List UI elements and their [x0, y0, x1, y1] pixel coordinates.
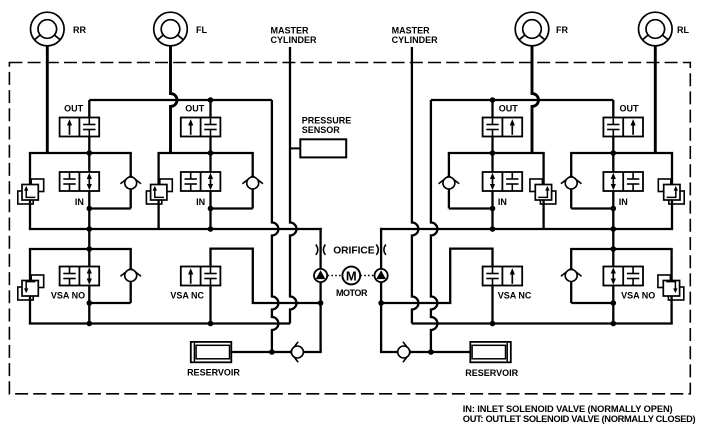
wire return line left (jumps at rails)	[272, 100, 279, 352]
wire FR main line OUT-to-IN	[491, 137, 493, 173]
wheel cylinder FR	[515, 12, 549, 46]
wire RL block top rail	[570, 152, 673, 154]
svg-text:SENSOR: SENSOR	[302, 125, 341, 135]
pump left	[314, 269, 327, 282]
wire VSA NO left main (valve to bottom rail)	[88, 286, 90, 324]
relief valve (FR block)	[530, 179, 543, 192]
wire RR relief branch vertical	[29, 153, 31, 229]
wire FL main line IN-to-mid rail	[209, 191, 211, 229]
wire FR block top rail	[448, 152, 545, 154]
relief valve (RR block)	[31, 179, 44, 192]
svg-text:FL: FL	[196, 25, 207, 35]
wire FL OUT riser	[209, 100, 211, 118]
check valve (FR block)	[439, 176, 460, 189]
wire FL block top rail	[157, 152, 253, 154]
wire RR wheel stem	[46, 46, 49, 153]
wire RR main line OUT-to-IN	[88, 137, 90, 173]
wire RL main line IN-to-mid rail	[612, 191, 614, 229]
wire VSA NC right (valve to bottom rail)	[491, 286, 493, 324]
reservoir right	[470, 342, 511, 362]
wire FR check join horizontal	[449, 207, 493, 209]
wire RR block top rail	[29, 152, 132, 154]
svg-text:OUT: OUT	[499, 104, 519, 114]
relief valve (FL block)	[160, 179, 173, 192]
svg-text:OUT: OUT	[64, 104, 84, 114]
wire pressure sensor stub	[290, 147, 300, 149]
wire RR check branch vertical	[130, 153, 132, 209]
wire FL relief branch vertical	[157, 153, 159, 229]
solenoid valve OUT (FR)	[483, 118, 523, 137]
wire FR check branch vertical	[448, 153, 450, 209]
wire RR OUT riser	[88, 100, 90, 118]
wire VSA NC left (valve to bottom rail)	[209, 286, 211, 324]
svg-text:IN: IN	[619, 197, 628, 207]
wire master cylinder left (jumps, ends at VSA bottom rail)	[290, 47, 297, 324]
svg-text:CYLINDER: CYLINDER	[392, 35, 439, 45]
solenoid valve IN (RR)	[60, 172, 100, 191]
solenoid valve IN (FL)	[181, 172, 221, 191]
svg-text:MASTER: MASTER	[271, 25, 310, 35]
svg-text:ORIFICE: ORIFICE	[333, 246, 375, 257]
svg-text:IN: IN	[196, 197, 205, 207]
svg-text:IN: IN	[75, 197, 84, 207]
wire RL OUT riser	[612, 100, 614, 118]
check valve (RR block)	[120, 176, 141, 189]
wire return line right (jumps at rails)	[431, 100, 438, 352]
modulator unit dashed enclosure	[9, 63, 690, 394]
motor shaft dotted right	[360, 275, 374, 277]
svg-text:OUT: OUT	[185, 104, 205, 114]
wire VSA NO left check vertical	[130, 249, 132, 303]
solenoid valve OUT (RL)	[603, 118, 643, 137]
svg-text:PRESSURE: PRESSURE	[302, 116, 352, 126]
svg-text:OUT: OUTLET SOLENOID VALVE (NO: OUT: OUTLET SOLENOID VALVE (NORMALLY CLO…	[463, 414, 696, 424]
solenoid valve VSA NC left	[181, 267, 221, 286]
svg-text:CYLINDER: CYLINDER	[271, 35, 318, 45]
svg-text:FR: FR	[556, 25, 568, 35]
wire FR wheel stem (jump over OUT rail)	[532, 46, 539, 153]
solenoid valve IN (RL)	[603, 172, 643, 191]
wire reservoir line left	[231, 351, 321, 353]
wire master cylinder right (jumps, ends at VSA bottom rail)	[412, 47, 419, 324]
wire FL check join horizontal	[211, 207, 253, 209]
svg-text:RL: RL	[677, 25, 689, 35]
svg-text:VSA NC: VSA NC	[170, 291, 204, 301]
motor M1	[342, 267, 360, 285]
wheel cylinder FL	[154, 12, 188, 46]
wire reservoir line right	[380, 351, 470, 353]
wire RL check join horizontal	[571, 207, 613, 209]
check valve (FL block)	[242, 176, 263, 189]
wire VSA bottom rail left	[29, 322, 290, 324]
orifice right	[376, 245, 386, 255]
check valve (VSA NO left)	[120, 268, 141, 281]
wire VSA NO left main (rail to valve)	[88, 229, 90, 267]
junction dots	[208, 97, 214, 103]
wire VSA NO left relief vertical	[29, 249, 31, 324]
wire VSA NO left check join	[89, 302, 130, 304]
relief valve (RL block)	[658, 179, 671, 192]
wire FL wheel stem (jump over OUT rail)	[171, 46, 178, 153]
wire VSA NO right main (rail to valve)	[612, 229, 614, 267]
wire VSA NO right check vertical	[570, 249, 572, 303]
solenoid valve VSA NC right	[483, 267, 523, 286]
wire VSA NO right top rail	[570, 248, 673, 250]
svg-text:VSA NO: VSA NO	[51, 291, 85, 301]
relief valve (VSA NO right)	[658, 275, 671, 288]
solenoid valve IN (FR)	[483, 172, 523, 191]
wire OUT return rail left	[89, 99, 272, 101]
wire VSA NO right check join	[571, 302, 613, 304]
svg-text:IN: INLET SOLENOID VALVE (NORM: IN: INLET SOLENOID VALVE (NORMALLY OPEN)	[463, 404, 673, 414]
pressure sensor	[300, 139, 346, 157]
wire FR OUT riser	[491, 100, 493, 118]
svg-text:OUT: OUT	[620, 104, 640, 114]
solenoid valve OUT (RR)	[60, 118, 100, 137]
wire VSA NC left riser and feed to pump	[211, 249, 321, 303]
wire FL main line OUT-to-IN	[209, 137, 211, 173]
svg-text:RESERVOIR: RESERVOIR	[465, 368, 518, 378]
svg-text:IN: IN	[498, 197, 507, 207]
wire VSA NC right riser and feed to pump	[381, 249, 492, 303]
wire RL wheel stem	[654, 46, 657, 153]
svg-text:VSA NO: VSA NO	[621, 291, 655, 301]
wire VSA bottom rail right	[412, 322, 673, 324]
check valve (reservoir left)	[290, 342, 303, 363]
wheel cylinder RL	[639, 12, 673, 46]
wire VSA NO left top rail	[29, 248, 132, 250]
wire mid rail right	[380, 228, 673, 230]
wheel cylinder RR	[31, 12, 65, 46]
solenoid valve OUT (FL)	[181, 118, 221, 137]
orifice left	[316, 245, 326, 255]
svg-text:MOTOR: MOTOR	[336, 288, 368, 298]
wire RR check join horizontal	[89, 207, 130, 209]
wire RR main line IN-to-mid rail	[88, 191, 90, 229]
reservoir left	[191, 342, 232, 362]
wire OUT return rail right	[431, 99, 613, 101]
relief valve (VSA NO left)	[31, 275, 44, 288]
svg-text:MASTER: MASTER	[392, 25, 431, 35]
solenoid valve VSA NO left	[60, 267, 100, 286]
wire VSA NO right main (valve to bottom rail)	[612, 286, 614, 324]
svg-text:VSA NC: VSA NC	[498, 291, 532, 301]
svg-text:RR: RR	[73, 25, 86, 35]
svg-text:M: M	[346, 268, 357, 283]
svg-text:RESERVOIR: RESERVOIR	[187, 367, 240, 377]
wire FR main line IN-to-mid rail	[491, 191, 493, 229]
wire RL main line OUT-to-IN	[612, 137, 614, 173]
check valve (RL block)	[561, 176, 582, 189]
pump right	[375, 269, 388, 282]
check valve (VSA NO right)	[561, 268, 582, 281]
wire VSA NO right relief vertical	[670, 249, 672, 324]
wire FL check branch vertical	[252, 153, 254, 209]
wire pump line left	[319, 228, 321, 352]
check valve (reservoir right)	[398, 342, 411, 363]
wire RL relief branch vertical	[671, 153, 673, 229]
motor shaft dotted left	[328, 275, 342, 277]
wire RL check branch vertical	[570, 153, 572, 209]
wire mid rail left	[29, 228, 322, 230]
wire pump line right	[380, 228, 382, 352]
wire FR relief branch vertical	[542, 153, 544, 229]
solenoid valve VSA NO right	[603, 267, 643, 286]
